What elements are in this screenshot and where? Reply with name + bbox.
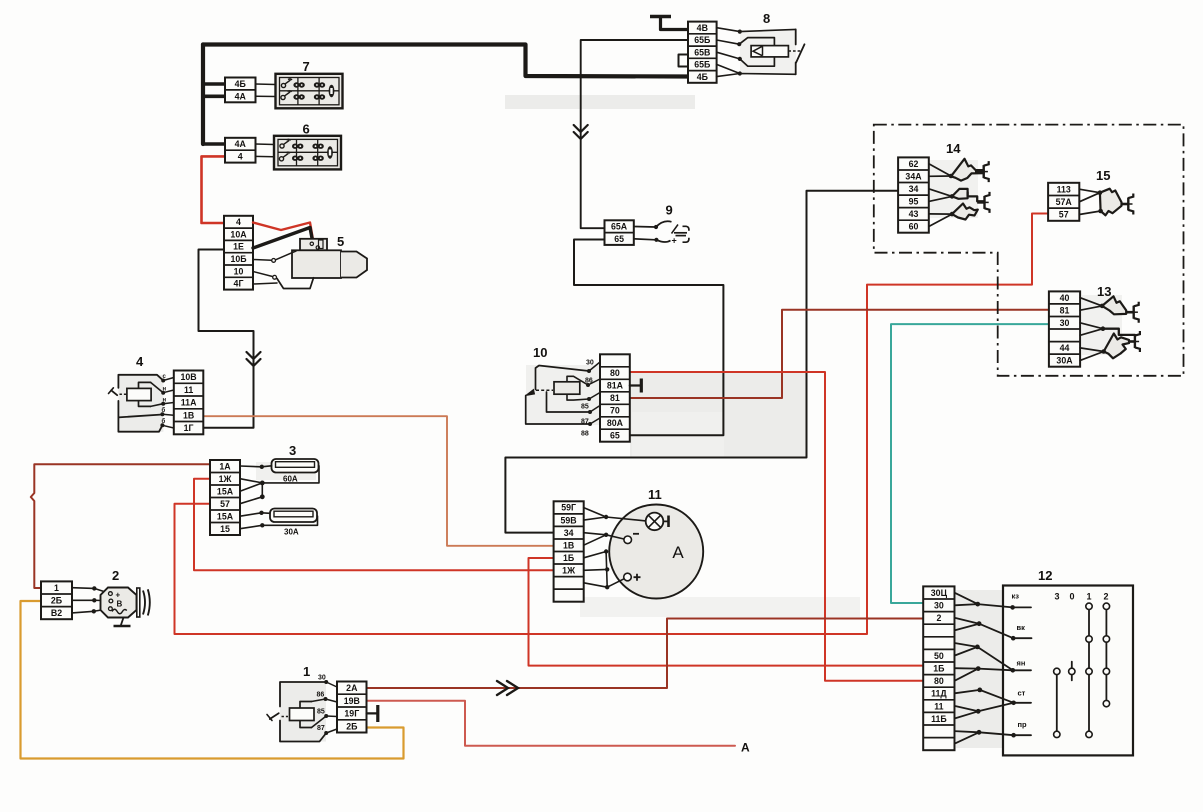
ammeter 11 plus terminal [624, 573, 632, 581]
svg-text:11А: 11А [181, 398, 197, 408]
wire stub to 4A of connector 6 [203, 142, 225, 146]
chevron symbol on 2A wire [497, 681, 518, 695]
lever [111, 390, 117, 395]
starter 5 terminal block [224, 216, 253, 290]
svg-text:В: В [117, 600, 123, 609]
d1 [94, 588, 108, 593]
14 spark plug lower [977, 201, 984, 204]
lever tick [109, 388, 114, 394]
s5 [1014, 734, 1031, 736]
lever [796, 44, 805, 63]
relay 10 contact dots [587, 369, 591, 373]
l1 [163, 378, 174, 381]
svg-text:65: 65 [614, 234, 624, 244]
wire black 65B from relay 8 to horn switch 9 [581, 40, 688, 228]
13 spark plug upper [1126, 311, 1134, 314]
lamp lead [663, 520, 668, 522]
horn 2 body [101, 588, 137, 618]
57 to node [240, 497, 262, 504]
svg-text:15: 15 [1096, 168, 1110, 183]
svg-text:1Ж: 1Ж [562, 566, 575, 576]
svg-text:4Б: 4Б [235, 79, 247, 89]
wire red 80 net relay 10 to ignition switch 12 [630, 372, 923, 681]
wire dark red 1A net from fuse block 3 to horn 2 [31, 464, 210, 588]
relay 4 top edge [118, 375, 163, 388]
coil link1 [312, 699, 326, 702]
svg-text:А: А [741, 741, 750, 755]
svg-text:65А: 65А [611, 222, 628, 232]
wire red 57 net fuse block 3 to relays 10 and 15 [175, 214, 1049, 635]
svg-text:57: 57 [1059, 210, 1069, 220]
gnd stem [121, 618, 124, 625]
a8 [606, 552, 607, 588]
s3 [1013, 669, 1031, 671]
fuse block 3 terminals [210, 460, 240, 535]
relay 4 mid bar [118, 415, 160, 418]
relay 1 contact dots [324, 680, 328, 684]
j8 [955, 647, 978, 656]
svg-text:80: 80 [610, 368, 620, 378]
svg-text:15: 15 [220, 524, 230, 534]
svg-text:1В: 1В [183, 410, 194, 420]
distributor 14 terminal block [898, 157, 929, 232]
r1 [717, 28, 796, 32]
svg-text:65В: 65В [694, 47, 710, 57]
svg-text:А: А [672, 543, 684, 562]
relay 1 bottom edge [280, 721, 326, 742]
wire red 1Zh net from fuse block 3 to ammeter block 11 [194, 479, 554, 571]
w1 [72, 587, 94, 590]
13 flash arrow lower [1104, 334, 1129, 359]
j10 [955, 667, 979, 669]
wire 10 [253, 272, 273, 277]
svg-text:2Б: 2Б [51, 596, 63, 606]
wire red ignition feed from connector 6 pin 4 to starter relay pin 4 [202, 156, 226, 223]
relay 8 contact dots [738, 30, 742, 34]
m4 [590, 406, 600, 413]
svg-text:30: 30 [934, 601, 944, 611]
ammeter 11 gauge circle [609, 505, 703, 599]
switch 15 terminal block [1048, 183, 1079, 221]
f3 [929, 189, 952, 197]
bracket [679, 55, 689, 67]
relay 1 terminal block [337, 682, 367, 733]
wire 10B to solenoid [276, 251, 297, 260]
wire link 4B [256, 83, 276, 86]
svg-text:11Д: 11Д [931, 689, 947, 699]
svg-text:34: 34 [909, 184, 919, 194]
relay 4 bottom left edge [118, 401, 162, 432]
svg-text:34А: 34А [905, 171, 922, 181]
svg-text:10: 10 [234, 266, 244, 276]
wire stub to 4A of connector 7 [203, 95, 225, 99]
svg-text:81: 81 [1060, 305, 1070, 315]
svg-text:57А: 57А [1056, 197, 1073, 207]
l2 [163, 390, 174, 393]
30 loop [536, 366, 590, 390]
h1 [1080, 298, 1102, 306]
svg-text:59В: 59В [561, 515, 577, 525]
15A2 to fuse30 [240, 513, 270, 516]
svg-text:4Г: 4Г [234, 279, 244, 289]
starter 5 drive housing [341, 252, 367, 278]
svg-text:5: 5 [337, 234, 344, 249]
l5 [162, 425, 173, 428]
m3 [589, 393, 600, 400]
j6 [979, 624, 1013, 639]
ammeter 11 minus terminal [624, 536, 632, 544]
coil link bottom [151, 404, 164, 407]
14 flash arrow upper [951, 159, 984, 181]
m5 [590, 418, 600, 424]
svg-text:81: 81 [610, 393, 620, 403]
svg-text:0: 0 [1070, 592, 1075, 602]
j14 [980, 690, 1014, 703]
s4 [1014, 702, 1031, 704]
col3 [1056, 671, 1058, 734]
wire teal 30 net ignition coil 13 to ignition switch 12 [891, 324, 1049, 603]
wire 4G [253, 283, 277, 284]
horn 2 terminal block [41, 581, 72, 619]
col2 [1105, 606, 1107, 703]
wire black 1E to solenoid [253, 228, 314, 249]
svg-text:57: 57 [220, 499, 230, 509]
relay 8 coil box [751, 46, 788, 57]
s2 [1013, 637, 1031, 639]
a3 [606, 517, 646, 521]
svg-text:40: 40 [1060, 293, 1070, 303]
a11 [607, 579, 624, 587]
svg-text:88: 88 [581, 431, 589, 438]
bracket bottom [567, 394, 589, 400]
svg-text:4А: 4А [235, 91, 247, 101]
j3 [978, 604, 1013, 607]
scan shading washes (decorative) [118, 30, 1122, 748]
a7 [584, 552, 606, 558]
svg-text:4: 4 [236, 217, 241, 227]
svg-text:62: 62 [909, 159, 919, 169]
wire link 4A [256, 95, 276, 97]
svg-text:2: 2 [1104, 592, 1109, 602]
svg-text:19В: 19В [344, 696, 360, 706]
ground symbol top [650, 15, 671, 19]
a6 [606, 535, 624, 539]
svg-text:19Г: 19Г [344, 709, 359, 719]
svg-text:81А: 81А [607, 381, 624, 391]
j12 [978, 669, 1013, 671]
coil link top [151, 382, 164, 392]
ignition switch 12 terminal block [923, 586, 954, 750]
starter 5 solenoid [300, 239, 327, 251]
svg-text:30: 30 [586, 360, 594, 367]
svg-text:44: 44 [1060, 343, 1070, 353]
f4 [929, 196, 952, 201]
14 flash arrow middle [952, 189, 968, 199]
j7 [955, 643, 978, 647]
relay 1 top edge [280, 682, 326, 707]
gnd lead [630, 384, 641, 386]
15 to fuse30 return [240, 516, 318, 529]
ignition switch 12 big box [1003, 586, 1133, 756]
svg-text:7: 7 [303, 59, 310, 74]
r3 [717, 52, 740, 59]
switch block 7 body [276, 74, 343, 109]
c1 [634, 226, 655, 229]
svg-text:ст: ст [1018, 689, 1026, 698]
rail top [795, 29, 797, 44]
j5 [955, 624, 980, 631]
wire link 4 [256, 155, 275, 157]
svg-text:59Г: 59Г [561, 503, 576, 513]
connector block 6 terminals 4A 4 [225, 138, 256, 163]
svg-text:11Б: 11Б [931, 714, 947, 724]
svg-text:1: 1 [303, 664, 310, 679]
svg-text:30: 30 [1060, 318, 1070, 328]
svg-text:95: 95 [909, 197, 919, 207]
j20 [979, 732, 1014, 735]
lever tick [267, 715, 272, 721]
j2 [955, 604, 978, 605]
svg-text:80А: 80А [607, 418, 624, 428]
k2 [326, 699, 338, 702]
j19 [955, 732, 980, 743]
svg-text:65: 65 [610, 431, 620, 441]
gnd stem to 4V [661, 17, 689, 30]
fuse 30A [270, 509, 317, 523]
svg-text:14: 14 [946, 141, 961, 156]
ammeter 11 terminal block [554, 501, 584, 601]
svg-text:9: 9 [666, 203, 673, 218]
svg-text:30А: 30А [284, 528, 299, 537]
svg-text:В2: В2 [51, 608, 62, 618]
svg-text:10В: 10В [181, 372, 197, 382]
svg-text:вк: вк [1017, 623, 1026, 632]
svg-text:4: 4 [238, 152, 243, 162]
wire red 1B net ammeter block 11 to ignition switch 12 [529, 558, 924, 666]
svg-text:15А: 15А [217, 486, 234, 496]
a9 [584, 568, 608, 571]
svg-text:65Б: 65Б [694, 35, 711, 45]
relay 4 contact dots [161, 379, 165, 383]
a5 [584, 535, 606, 545]
wire black from starter relay 1E down to relay 4 pin 1G [199, 250, 254, 428]
l4 [162, 413, 173, 416]
gnd lead [367, 712, 378, 714]
svg-text:1: 1 [54, 583, 59, 593]
horn 2 membrane [137, 588, 140, 617]
f2 [929, 175, 951, 177]
m2 [588, 379, 600, 385]
svg-text:80: 80 [934, 676, 944, 686]
r5 [717, 74, 796, 77]
lever [270, 713, 279, 719]
svg-text:87: 87 [317, 725, 325, 732]
wire 10B [253, 259, 272, 262]
r2 [717, 40, 740, 44]
coil link2 [312, 716, 327, 728]
svg-text:кз: кз [1012, 591, 1020, 600]
13 spark plug lower [1129, 340, 1135, 343]
wire black vertical to connectors 7 and 6 [201, 45, 205, 145]
conn [968, 192, 985, 201]
88 wire [526, 396, 590, 425]
svg-text:65Б: 65Б [694, 60, 711, 70]
15 spark plug [1122, 203, 1129, 206]
g1 [1079, 189, 1100, 193]
chevron break symbol on 1G wire [247, 352, 261, 366]
c2 [634, 239, 656, 240]
svg-text:б: б [162, 407, 166, 414]
svg-text:4В: 4В [697, 23, 708, 33]
j11 [955, 669, 979, 681]
h6 [1080, 352, 1104, 361]
svg-text:2: 2 [936, 613, 941, 623]
h5 [1080, 348, 1104, 352]
w3 [72, 611, 94, 613]
svg-text:2: 2 [112, 568, 119, 583]
svg-text:12: 12 [1038, 568, 1052, 583]
svg-text:1Б: 1Б [933, 664, 945, 674]
w2 [72, 599, 94, 601]
dash-dot border around 13 14 15 [874, 125, 1184, 376]
node down [261, 483, 263, 497]
svg-text:60: 60 [909, 222, 919, 232]
wire stub to 4B of connector 7 [203, 82, 225, 86]
svg-text:8: 8 [763, 11, 770, 26]
svg-text:4Б: 4Б [697, 72, 709, 82]
j17 [978, 703, 1013, 712]
svg-text:1Ж: 1Ж [219, 474, 232, 484]
svg-text:пр: пр [1018, 720, 1028, 729]
svg-text:+: + [672, 236, 677, 246]
1A to fuse60 [240, 466, 272, 467]
13 flash arrow upper [1102, 296, 1126, 314]
1Zh to node [240, 479, 262, 483]
svg-text:10А: 10А [230, 229, 247, 239]
svg-text:30: 30 [318, 675, 326, 682]
h4 [1080, 329, 1103, 336]
svg-text:ян: ян [1017, 659, 1026, 668]
relay 8 terminal block [688, 22, 717, 83]
horn switch 9 terminals [605, 220, 634, 245]
f5 [929, 213, 952, 215]
k1 [326, 682, 337, 687]
bracket top [567, 376, 588, 385]
wire dark red 81 net relay 10 to ignition coil 13 [630, 310, 1049, 398]
wire salmon 1V net from relay 4 to ammeter block 11 [203, 416, 553, 546]
14 spark plug upper [975, 170, 984, 173]
ammeter 11 lamp [646, 513, 664, 531]
wire black 34 net from tachometer 14 to ammeter block 11 [505, 191, 898, 533]
bracket [300, 702, 312, 728]
starter 5 motor body [292, 250, 341, 278]
f1 [929, 164, 951, 176]
svg-text:1В: 1В [563, 540, 574, 550]
wire red to solenoid [253, 223, 313, 242]
svg-text:85: 85 [581, 404, 589, 411]
l3 [163, 403, 174, 404]
svg-text:11: 11 [184, 385, 193, 395]
j16 [955, 711, 979, 718]
wire black 65 from horn switch 9 to horn relay 10 [574, 240, 723, 436]
svg-text:50: 50 [934, 651, 944, 661]
s1 [1013, 606, 1031, 608]
svg-text:11: 11 [934, 701, 943, 711]
j13 [955, 690, 980, 693]
svg-text:113: 113 [1057, 184, 1071, 194]
j15 [955, 706, 979, 711]
svg-text:86: 86 [317, 692, 325, 699]
svg-text:10: 10 [533, 345, 547, 360]
svg-text:70: 70 [610, 406, 620, 416]
a1 [584, 508, 606, 517]
a2 [584, 517, 606, 520]
svg-text:1Г: 1Г [184, 423, 194, 433]
j18 [955, 731, 980, 732]
wire link 4A [256, 143, 275, 146]
svg-text:4А: 4А [235, 139, 247, 149]
col1 [1088, 606, 1090, 734]
svg-text:1А: 1А [219, 461, 231, 471]
svg-text:15А: 15А [217, 511, 234, 521]
horn switch 9 battery symbol [672, 225, 679, 234]
svg-text:+: + [116, 591, 121, 600]
svg-text:85: 85 [317, 709, 325, 716]
coil bracket top [139, 382, 151, 406]
chevron break symbol on 65B wire [574, 125, 588, 139]
j9 [977, 647, 1012, 670]
j4 [955, 618, 980, 624]
svg-text:3: 3 [1055, 592, 1060, 602]
h3 [1080, 323, 1103, 329]
k4 [326, 729, 337, 733]
svg-text:30А: 30А [1056, 356, 1073, 366]
svg-text:30Ц: 30Ц [931, 588, 948, 598]
connector block 7 terminals 4B 4A [225, 78, 256, 103]
col0 [1071, 662, 1073, 681]
87 wire [547, 392, 591, 412]
a10 [584, 583, 608, 587]
svg-text:87: 87 [581, 419, 589, 426]
svg-text:43: 43 [909, 209, 919, 219]
j1 [955, 593, 978, 604]
svg-text:6: 6 [303, 122, 310, 137]
d3 [94, 609, 109, 611]
r4 [717, 64, 740, 73]
svg-text:б: б [162, 418, 166, 425]
relay 10 lever [526, 390, 535, 396]
k3 [326, 715, 337, 718]
fuse60 return [262, 466, 319, 483]
rail bottom [795, 63, 797, 75]
svg-text:10Б: 10Б [230, 254, 247, 264]
wire orange 2B net relay 1 to horn 2 [21, 601, 404, 759]
ignition unit 13 terminal block [1049, 291, 1080, 366]
a4 [584, 533, 606, 535]
loop [739, 38, 774, 67]
svg-text:13: 13 [1097, 284, 1111, 299]
wire dark red 2A net relay 1 to ignition switch 12 [367, 619, 924, 689]
svg-text:2Б: 2Б [346, 721, 358, 731]
svg-text:3: 3 [289, 443, 296, 458]
svg-text:34: 34 [564, 528, 574, 538]
d2 [94, 599, 109, 602]
switch block 6 body [274, 136, 341, 170]
g3 [1079, 211, 1100, 215]
relay 4 terminal block [174, 371, 204, 435]
15 flash arrow [1100, 189, 1122, 216]
m1 [589, 362, 600, 371]
